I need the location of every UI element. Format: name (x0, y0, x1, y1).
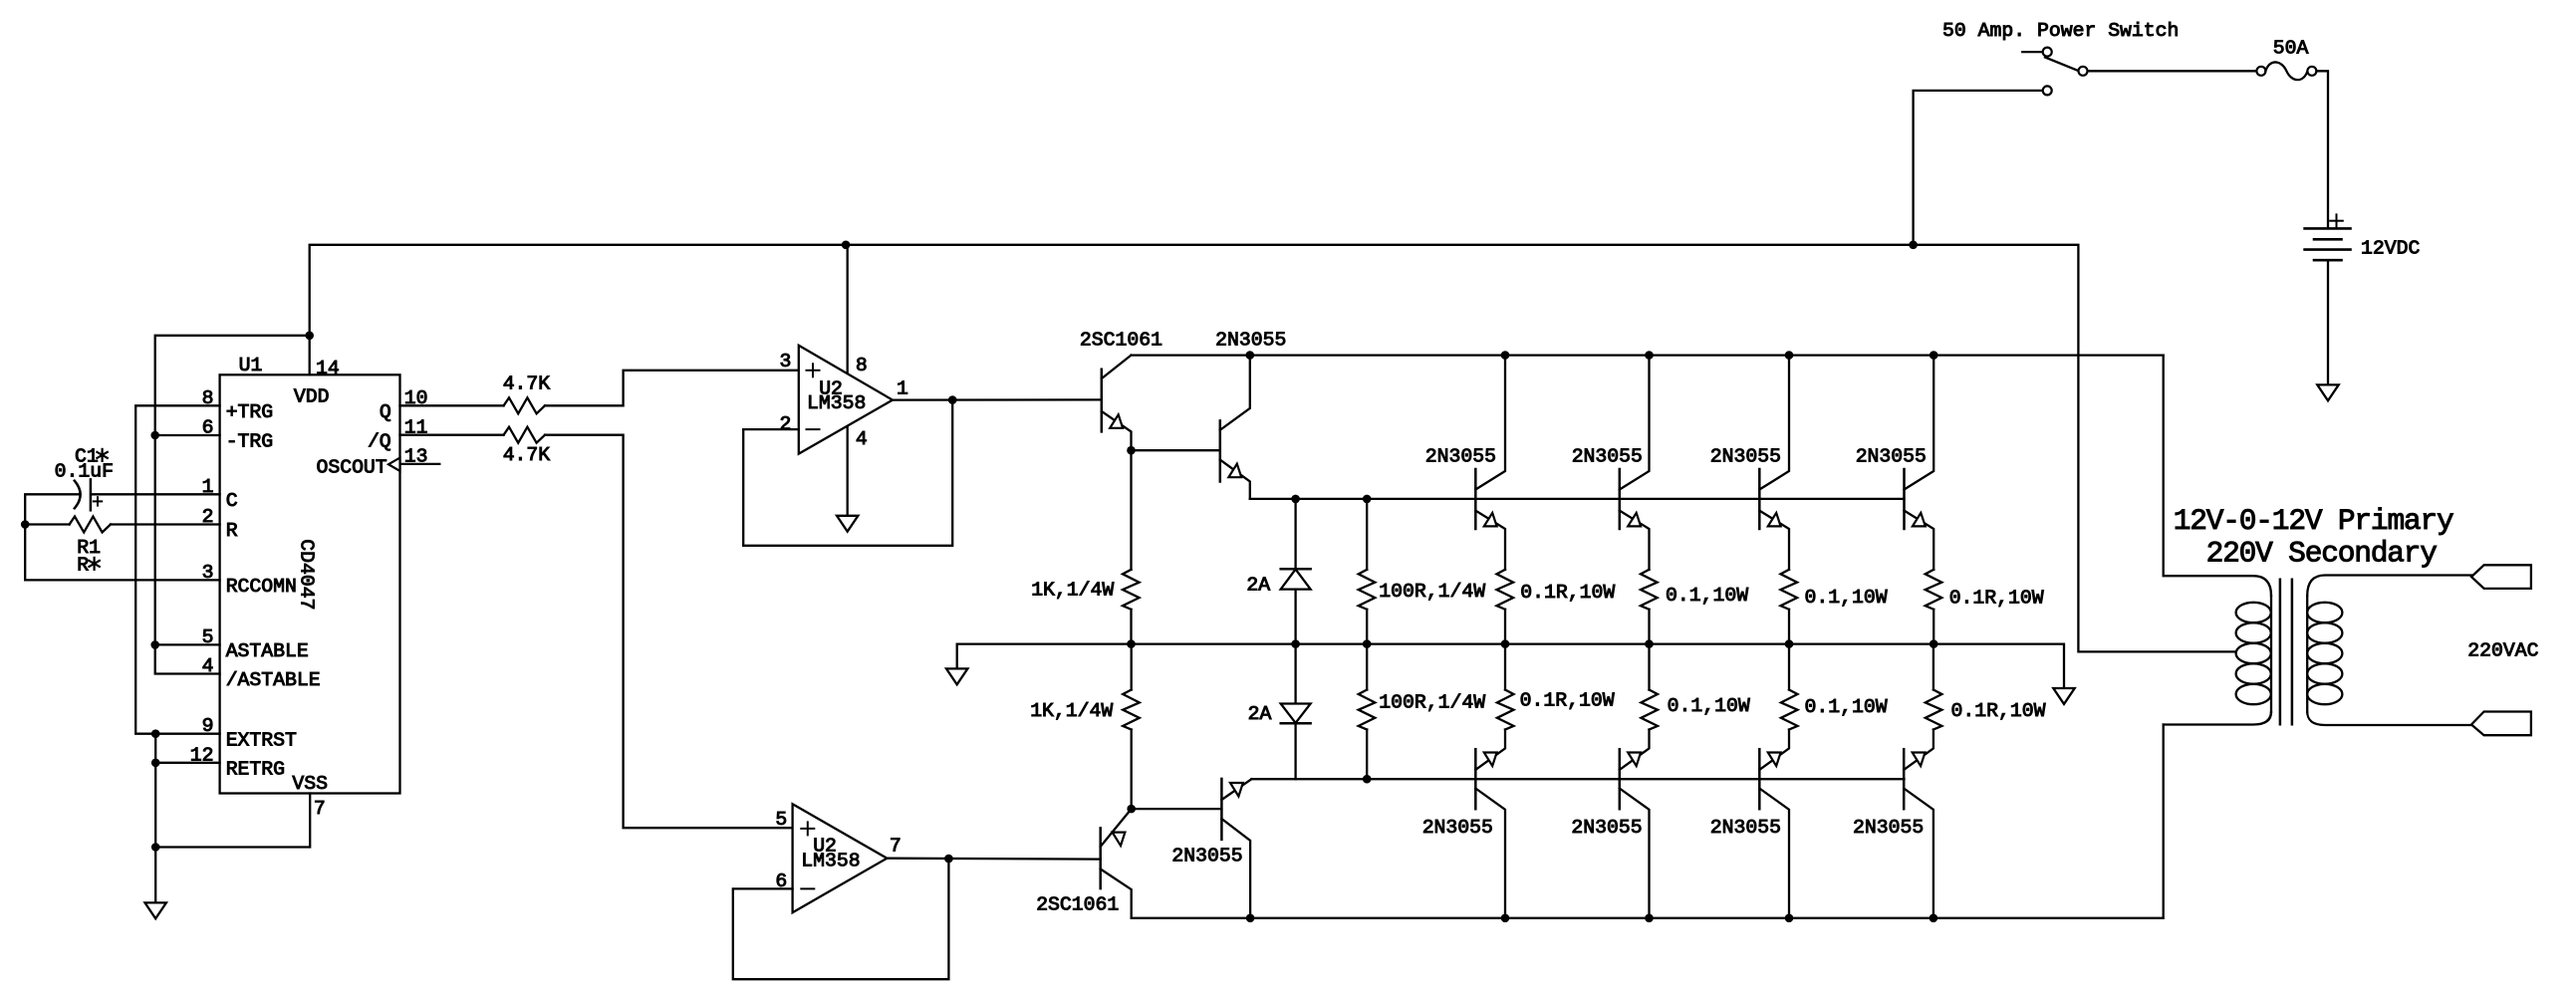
svg-text:5: 5 (775, 809, 787, 831)
svg-text:RETRG: RETRG (226, 759, 285, 781)
svg-text:OSCOUT: OSCOUT (316, 457, 386, 479)
svg-text:4.7K: 4.7K (503, 444, 551, 466)
svg-text:2: 2 (780, 413, 792, 435)
svg-text:220VAC: 220VAC (2467, 640, 2538, 662)
svg-text:0.1,10W: 0.1,10W (1668, 695, 1750, 717)
svg-text:14: 14 (316, 358, 340, 379)
svg-text:R: R (226, 520, 238, 542)
svg-text:-TRG: -TRG (226, 431, 273, 453)
svg-text:RCCOMN: RCCOMN (226, 576, 297, 598)
svg-text:12V-0-12V Primary: 12V-0-12V Primary (2174, 504, 2454, 538)
svg-text:CD4047: CD4047 (296, 539, 318, 610)
svg-text:2N3055: 2N3055 (1425, 446, 1496, 468)
svg-text:2N3055: 2N3055 (1856, 446, 1927, 468)
svg-text:2N3055: 2N3055 (1171, 846, 1242, 867)
svg-text:4: 4 (856, 428, 868, 450)
svg-text:EXTRST: EXTRST (226, 729, 297, 751)
svg-text:10: 10 (404, 387, 428, 409)
svg-text:220V Secondary: 220V Secondary (2206, 536, 2438, 570)
svg-text:VDD: VDD (294, 385, 330, 407)
svg-text:13: 13 (404, 445, 428, 467)
svg-text:0.1R,10W: 0.1R,10W (1949, 588, 2044, 610)
svg-text:2A: 2A (1246, 575, 1270, 597)
svg-text:/Q: /Q (368, 431, 391, 453)
svg-text:Q: Q (380, 401, 391, 423)
svg-text:0.1R,10W: 0.1R,10W (1520, 582, 1615, 604)
svg-text:100R,1/4W: 100R,1/4W (1379, 581, 1485, 603)
svg-text:U1: U1 (239, 355, 263, 376)
svg-text:1K,1/4W: 1K,1/4W (1030, 700, 1113, 722)
svg-text:2N3055: 2N3055 (1422, 817, 1493, 839)
svg-text:2N3055: 2N3055 (1215, 330, 1286, 352)
svg-text:100R,1/4W: 100R,1/4W (1379, 691, 1485, 713)
svg-text:3: 3 (202, 562, 214, 584)
svg-text:1K,1/4W: 1K,1/4W (1031, 580, 1114, 602)
svg-text:0.1uF: 0.1uF (55, 461, 114, 483)
svg-text:0.1R,10W: 0.1R,10W (1951, 700, 2046, 722)
svg-text:2: 2 (202, 506, 214, 528)
svg-text:7: 7 (890, 835, 902, 857)
svg-text:LM358: LM358 (807, 392, 866, 414)
svg-text:1: 1 (897, 377, 908, 399)
svg-text:C: C (226, 490, 238, 512)
svg-text:2N3055: 2N3055 (1710, 446, 1781, 468)
svg-text:2N3055: 2N3055 (1710, 817, 1781, 839)
svg-text:0.1,10W: 0.1,10W (1805, 587, 1888, 609)
svg-text:8: 8 (856, 355, 868, 376)
svg-text:0.1,10W: 0.1,10W (1805, 696, 1888, 718)
svg-text:4.7K: 4.7K (503, 372, 551, 394)
svg-text:/ASTABLE: /ASTABLE (226, 669, 321, 691)
svg-text:2SC1061: 2SC1061 (1080, 330, 1162, 352)
svg-text:1: 1 (202, 476, 214, 498)
svg-text:8: 8 (202, 387, 214, 409)
svg-text:4: 4 (202, 655, 214, 677)
svg-text:2N3055: 2N3055 (1571, 817, 1642, 839)
svg-text:0.1,10W: 0.1,10W (1666, 585, 1748, 607)
svg-text:6: 6 (775, 870, 787, 892)
svg-text:6: 6 (202, 417, 214, 439)
svg-text:7: 7 (314, 798, 326, 820)
svg-text:12: 12 (190, 744, 214, 766)
svg-text:2SC1061: 2SC1061 (1036, 894, 1119, 916)
svg-text:LM358: LM358 (801, 851, 860, 872)
svg-text:0.1R,10W: 0.1R,10W (1520, 690, 1615, 712)
svg-text:5: 5 (202, 626, 214, 648)
svg-text:2N3055: 2N3055 (1853, 817, 1924, 839)
svg-text:+TRG: +TRG (226, 401, 273, 423)
svg-text:R: R (77, 555, 89, 577)
svg-text:ASTABLE: ASTABLE (226, 640, 309, 662)
svg-text:2N3055: 2N3055 (1572, 446, 1643, 468)
svg-text:VSS: VSS (292, 773, 328, 795)
svg-text:11: 11 (404, 417, 428, 439)
svg-text:3: 3 (780, 351, 792, 372)
svg-text:9: 9 (202, 715, 214, 737)
svg-text:50A: 50A (2273, 37, 2309, 59)
svg-text:50 Amp. Power Switch: 50 Amp. Power Switch (1942, 20, 2179, 42)
svg-text:12VDC: 12VDC (2361, 238, 2420, 260)
svg-text:2A: 2A (1248, 703, 1272, 725)
